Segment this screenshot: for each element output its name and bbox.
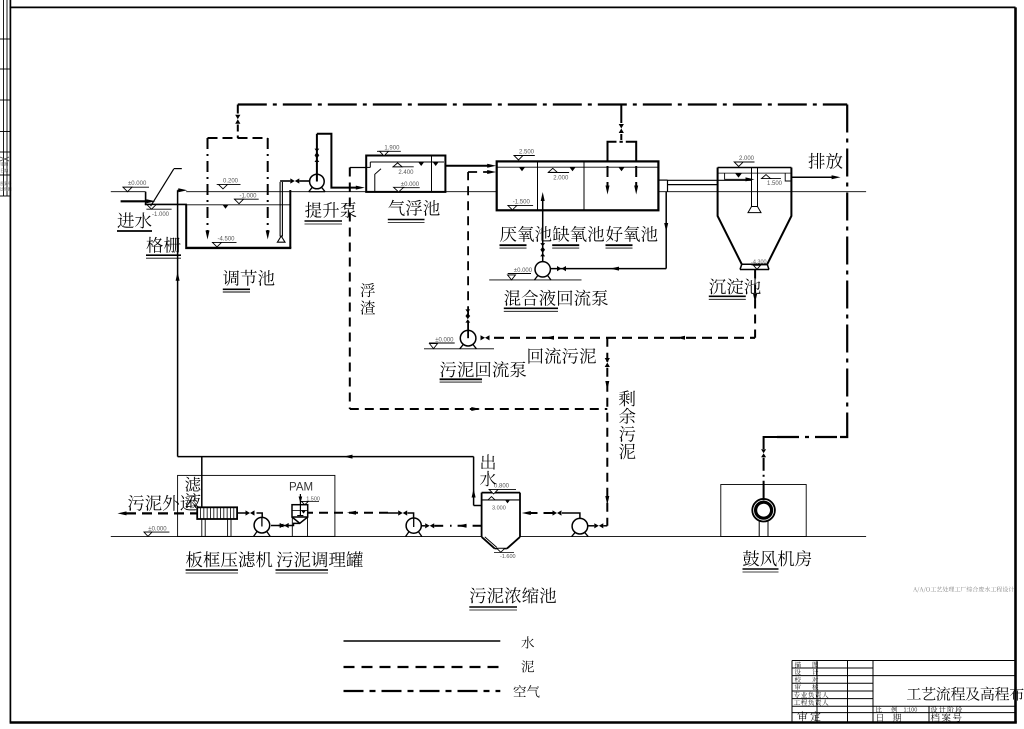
svg-text:调节池: 调节池 bbox=[223, 266, 276, 291]
valve on line to conditioning tank bbox=[398, 510, 403, 515]
filtrate riser 滤液 bbox=[201, 457, 203, 508]
effluent discharge pipe 排放 bbox=[791, 176, 833, 178]
scum/sludge horizontal dashed line to thickener feed bbox=[350, 408, 608, 410]
pipe AAO to sedimentation tank upper line bbox=[668, 179, 752, 181]
svg-text:±0.000: ±0.000 bbox=[401, 182, 420, 188]
svg-text:污泥浓缩池: 污泥浓缩池 bbox=[469, 583, 556, 608]
svg-text:±0.000: ±0.000 bbox=[148, 526, 167, 532]
conditioning tank liquid line bbox=[292, 509, 308, 511]
air manifold over regulation tank bbox=[208, 137, 268, 139]
pipe conditioning tank to filter press pump bbox=[271, 523, 300, 525]
air drop pipe right into regulation tank bbox=[267, 138, 269, 231]
svg-text:渣: 渣 bbox=[360, 297, 376, 319]
AAO air drop pipe left bbox=[607, 150, 609, 186]
ground line at mixed liquor pump bbox=[489, 279, 581, 281]
thickener feed pump bbox=[572, 518, 588, 534]
svg-text:污泥调理罐: 污泥调理罐 bbox=[276, 547, 364, 572]
suction pipe top bend bbox=[280, 180, 290, 182]
svg-text:±0.000: ±0.000 bbox=[514, 268, 533, 274]
AAO air manifold bbox=[608, 142, 617, 150]
lift pump 提升泵 bbox=[310, 174, 325, 189]
level 2.000 sedimentation tank bbox=[734, 161, 755, 163]
valve on blower discharge bbox=[761, 449, 766, 453]
sedimentation tank outlet trough bbox=[785, 173, 791, 181]
svg-text:日: 日 bbox=[875, 711, 884, 724]
filter press room enclosure bbox=[178, 475, 335, 536]
border: left strip tick marks bbox=[0, 38, 10, 40]
svg-text:格栅: 格栅 bbox=[146, 233, 181, 258]
bar screen 格栅 bbox=[151, 169, 174, 206]
level 1.900 flotation tank bbox=[377, 150, 401, 152]
air pipe horizontal to main riser bbox=[777, 436, 840, 438]
mixed liquor return riser into anoxic cell bbox=[542, 199, 544, 269]
svg-text:回流污泥: 回流污泥 bbox=[527, 344, 597, 369]
legend water line 水 bbox=[344, 640, 501, 642]
valve on AAO air branch bbox=[619, 124, 624, 129]
level -1.000 regulation tank bbox=[234, 198, 259, 200]
level ±0.000 sludge return pump bbox=[429, 342, 455, 344]
svg-text:板框压滤机: 板框压滤机 bbox=[185, 547, 273, 572]
svg-text:期: 期 bbox=[893, 711, 902, 724]
level 0.800 thickening tank bbox=[490, 488, 516, 490]
svg-text:±0.000: ±0.000 bbox=[435, 338, 454, 344]
air branch riser to regulation tank bbox=[237, 105, 239, 114]
border: left strip tiny annotations bbox=[0, 157, 9, 161]
valve on sludge return riser bbox=[465, 309, 470, 312]
ground line at sludge return pump bbox=[424, 348, 494, 350]
excess sludge dashed downpipe 剩余污泥 bbox=[606, 338, 608, 526]
regulation tank 调节池 walls bbox=[185, 204, 187, 247]
air branch riser to AAO aerobic cell bbox=[620, 105, 622, 124]
svg-text:液: 液 bbox=[185, 488, 202, 512]
mixed liquor take-off downpipe from outlet channel bbox=[665, 192, 667, 269]
sludge conditioning tank 污泥调理罐 bbox=[292, 505, 308, 517]
svg-text:缺氧池: 缺氧池 bbox=[552, 222, 605, 247]
level -1.000 at inlet channel bbox=[146, 208, 171, 210]
thickening tank water line bbox=[482, 499, 520, 501]
valve on excess sludge pipe bbox=[605, 358, 610, 363]
valve on regulation tank air branch bbox=[235, 115, 240, 120]
air branch lower segment bbox=[237, 125, 239, 139]
valve on conditioning feed pump suction bbox=[425, 523, 430, 528]
svg-text:3.000: 3.000 bbox=[492, 506, 506, 512]
svg-text:2.000: 2.000 bbox=[553, 175, 569, 181]
level 0.200 regulation tank bbox=[217, 183, 241, 185]
level ±0.000 mixed liquor pump bbox=[508, 273, 531, 275]
sludge return riser to anaerobic cell bbox=[467, 172, 469, 330]
valve on sludge return pump outlet bbox=[481, 335, 486, 340]
AAO tank inner top line bbox=[497, 166, 659, 168]
ground line at bottom level, right part bbox=[520, 536, 866, 538]
svg-text:进水: 进水 bbox=[117, 208, 152, 233]
blower room 鼓风机房 bbox=[721, 485, 806, 537]
air drop pipe left into regulation tank bbox=[207, 138, 209, 231]
svg-text:1.900: 1.900 bbox=[384, 145, 400, 151]
pipe AAO to sedimentation tank lower line bbox=[668, 184, 718, 186]
svg-text:A/A/O工艺处理工厂综合废水工程设计: A/A/O工艺处理工厂综合废水工程设计 bbox=[913, 585, 1014, 594]
thickener supernatant riser 出水 bbox=[474, 505, 482, 507]
valve on thickener feed line bbox=[553, 510, 558, 515]
flotation tank inlet baffle bbox=[375, 169, 381, 192]
valve on lift pump discharge bbox=[315, 149, 320, 152]
air main header dash-dot line bbox=[238, 103, 847, 105]
level -4.500 regulation tank bbox=[212, 241, 237, 243]
svg-text:空气: 空气 bbox=[513, 681, 541, 701]
svg-text:档案号: 档案号 bbox=[931, 710, 964, 724]
ground line left of inlet bbox=[111, 191, 146, 193]
sedimentation tank center well bbox=[751, 168, 753, 207]
sedimentation tank water line bbox=[718, 172, 792, 174]
sedimentation tank bottom bbox=[742, 263, 767, 265]
svg-text:1:100: 1:100 bbox=[904, 707, 918, 713]
conditioning tank legs bbox=[291, 518, 293, 537]
svg-text:好氧池: 好氧池 bbox=[606, 222, 659, 247]
svg-text:泥: 泥 bbox=[521, 656, 535, 676]
svg-text:2.400: 2.400 bbox=[398, 170, 414, 176]
conditioning feed pump bbox=[406, 518, 421, 533]
mixed liquor return pump 混合液回流泵 bbox=[535, 262, 550, 277]
svg-text:2.000: 2.000 bbox=[739, 156, 755, 162]
thickened sludge draw-off dashed pipe bbox=[450, 525, 482, 527]
svg-text:日期: 日期 bbox=[0, 167, 8, 173]
svg-text:-1.500: -1.500 bbox=[513, 200, 531, 206]
thickener feed pump discharge bbox=[562, 513, 580, 518]
svg-text:审定: 审定 bbox=[797, 709, 823, 725]
valve on mixed liquor return riser bbox=[540, 243, 545, 246]
sedimentation tank inlet trough bbox=[725, 173, 752, 179]
pipe flotation tank to AAO tank bbox=[445, 165, 489, 167]
legend sludge line 泥 bbox=[344, 666, 501, 668]
AAO tank divider 2 bbox=[583, 161, 585, 210]
agitator and PAM feed bbox=[299, 494, 301, 516]
svg-text:污泥回流泵: 污泥回流泵 bbox=[439, 357, 527, 382]
AAO tank outer shell 厌氧池缺氧池好氧池 bbox=[497, 161, 659, 210]
return sludge dashed pipe 回流污泥 bbox=[494, 337, 755, 339]
level 2.400 flotation tank bbox=[393, 166, 414, 168]
svg-text:1.500: 1.500 bbox=[306, 497, 320, 503]
flotation tank inner top line bbox=[370, 161, 444, 163]
regulation tank water tick bbox=[223, 205, 229, 209]
svg-text:气浮池: 气浮池 bbox=[388, 196, 441, 221]
svg-text:鼓风机房: 鼓风机房 bbox=[742, 546, 812, 571]
svg-text:0.200: 0.200 bbox=[223, 179, 239, 185]
flow arrow into sedimentation tank bbox=[746, 177, 755, 181]
ground line from bar screen to AAO tank bbox=[186, 191, 497, 193]
inlet channel bottom bbox=[145, 203, 187, 205]
valve thickener feed pump suction bbox=[594, 523, 599, 528]
lift pump discharge pipe to flotation tank bbox=[317, 134, 357, 188]
lift pump discharge riser bbox=[316, 134, 318, 182]
svg-text:-1.600: -1.600 bbox=[500, 554, 516, 560]
title block table lines bbox=[792, 660, 1016, 662]
border: left margin strip verticals bbox=[3, 0, 5, 196]
AAO air drop pipe right bbox=[635, 150, 637, 186]
svg-text:工艺流程及高程布置图: 工艺流程及高程布置图 bbox=[906, 684, 1024, 705]
filter press legs bbox=[201, 519, 203, 536]
level 2.000 AAO bbox=[548, 172, 569, 174]
svg-text:2.500: 2.500 bbox=[519, 150, 535, 156]
level ±0.000 at inlet bbox=[123, 186, 149, 188]
influent pipe 进水 bbox=[121, 200, 148, 202]
valve on mixed liquor discharge bbox=[557, 266, 562, 271]
scum outlet pipe from flotation tank bbox=[350, 167, 366, 169]
blower bbox=[752, 499, 775, 522]
level ±0.000 flotation tank bbox=[394, 187, 419, 189]
blower air pipe dash-dot riser bbox=[763, 458, 765, 482]
thickening tank hopper inner line bbox=[485, 537, 497, 548]
flotation tank water ticks bbox=[418, 162, 424, 166]
mixed liquor pump discharge pipe bbox=[550, 268, 666, 270]
thickening tank hopper bbox=[482, 537, 495, 549]
border: drawing frame bbox=[9, 0, 11, 723]
level 2.500 AAO bbox=[515, 155, 535, 157]
plate frame filter press 板框压滤机 bbox=[197, 507, 237, 519]
svg-text:水: 水 bbox=[480, 465, 497, 490]
sludge return horizontal into AAO tank bbox=[468, 171, 489, 173]
svg-text:排放: 排放 bbox=[808, 149, 843, 174]
valve on filter press pump suction bbox=[280, 523, 285, 528]
pump suction pipe in regulation tank bbox=[279, 182, 281, 237]
air main riser dash-dot bbox=[846, 105, 848, 428]
filter press feed pump discharge bbox=[257, 513, 263, 517]
scum down pipe 浮渣 dashed bbox=[349, 168, 351, 410]
svg-text:-4.500: -4.500 bbox=[218, 237, 236, 243]
level ±0.000 at press room bbox=[144, 531, 169, 533]
blower legs bbox=[758, 521, 760, 536]
svg-text:工程负责人: 工程负责人 bbox=[794, 697, 829, 707]
conditioning feed pump discharge bbox=[407, 513, 413, 518]
ground line from AAO outlet channel to right end bbox=[658, 191, 866, 193]
svg-text:混合液回流泵: 混合液回流泵 bbox=[504, 286, 609, 311]
sludge return pump 污泥回流泵 bbox=[460, 330, 476, 346]
influent flow arrow bbox=[147, 199, 156, 203]
sludge haul-away dashed line 污泥外运 bbox=[126, 512, 197, 514]
ground line at bottom level, left part bbox=[111, 536, 482, 538]
svg-text:-1.000: -1.000 bbox=[240, 194, 258, 200]
filter press feed pump bbox=[254, 517, 270, 533]
svg-text:±0.000: ±0.000 bbox=[128, 181, 147, 187]
level 1.500 sedimentation tank bbox=[762, 177, 781, 179]
AAO tank divider 1 bbox=[537, 161, 539, 210]
svg-text:PAM: PAM bbox=[289, 482, 313, 494]
foot strainer bbox=[277, 236, 285, 242]
sludge thickening tank 污泥浓缩池 shell bbox=[482, 492, 520, 494]
svg-text:泥: 泥 bbox=[619, 439, 637, 464]
svg-text:水: 水 bbox=[521, 632, 535, 652]
svg-text:厌氧池: 厌氧池 bbox=[500, 222, 553, 247]
valve on lift pump suction bbox=[290, 178, 295, 183]
sedimentation tank 沉淀池 shell bbox=[718, 167, 792, 169]
regulation tank water line bbox=[186, 204, 290, 206]
effluent return outlet arrow at inlet bbox=[178, 189, 181, 191]
legend air line 空气 bbox=[344, 690, 501, 692]
flotation tank 气浮池 outer shell bbox=[366, 156, 445, 192]
flotation tank divider bbox=[431, 156, 433, 192]
AAO outlet channel bbox=[658, 179, 667, 181]
level -1.600 thickening tank bbox=[497, 548, 505, 552]
valve on press feed line bbox=[246, 510, 251, 515]
level 1.500 conditioning tank bbox=[302, 500, 319, 502]
effluent return riser at plant head bbox=[177, 190, 179, 456]
dashed pipe to conditioning tank bbox=[308, 512, 388, 514]
svg-text:-1.000: -1.000 bbox=[152, 212, 170, 218]
effluent return line to plant head bbox=[178, 456, 474, 458]
level -1.500 AAO bbox=[509, 204, 534, 206]
AAO water ticks bbox=[519, 167, 525, 171]
sedimentation underflow dashed pipe bbox=[754, 270, 756, 338]
svg-text:1.500: 1.500 bbox=[767, 181, 783, 187]
svg-text:审图: 审图 bbox=[0, 161, 8, 167]
inlet channel wall bbox=[145, 192, 147, 205]
